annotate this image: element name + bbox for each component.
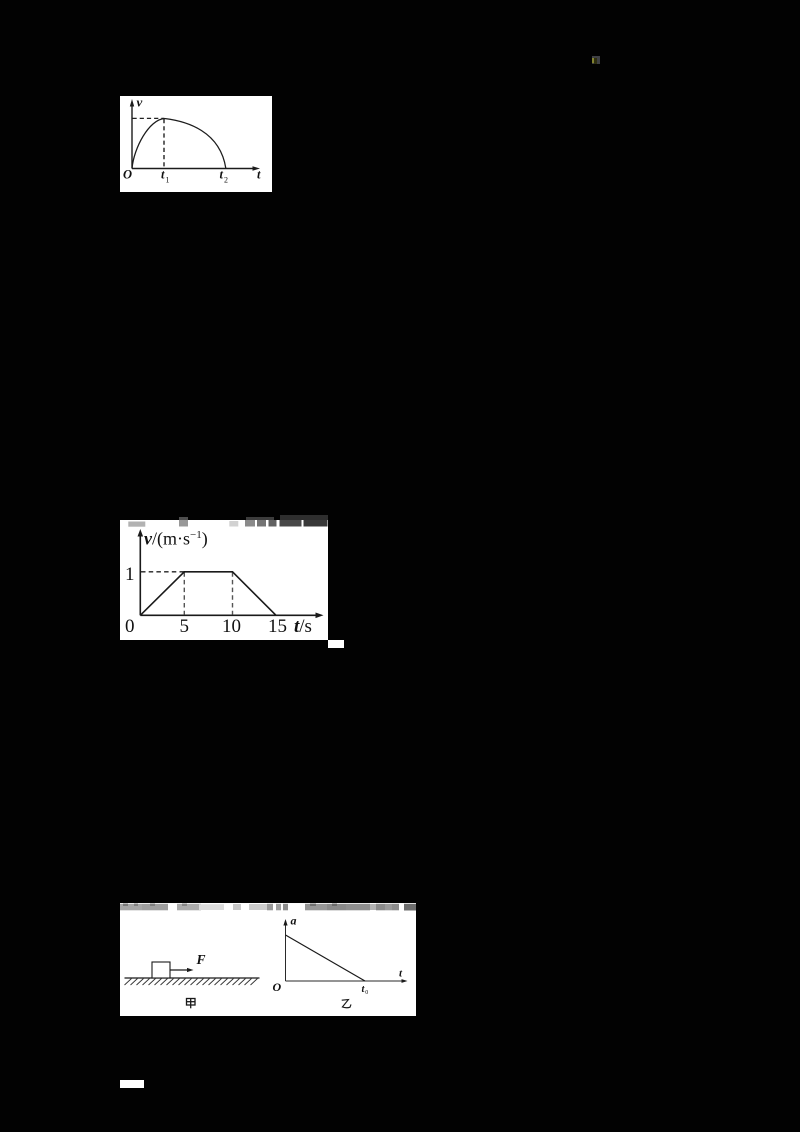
svg-text:t: t xyxy=(257,168,261,182)
svg-text:0: 0 xyxy=(365,990,368,996)
a-axis xyxy=(285,923,287,981)
svg-text:15: 15 xyxy=(268,616,287,637)
ground line xyxy=(125,977,260,979)
dashed vertical at t1 xyxy=(163,119,165,168)
small white tab at bottom-right of panel 2 xyxy=(328,640,344,648)
dashed horizontal to peak xyxy=(133,117,165,119)
svg-text:5: 5 xyxy=(180,616,190,637)
small white tab bottom left xyxy=(120,1080,144,1088)
ground hatching xyxy=(125,979,258,986)
x-axis xyxy=(140,614,318,616)
decreasing a line xyxy=(286,935,366,981)
figure panel 3: block with force F and a-t graph xyxy=(120,903,416,1016)
svg-text:2: 2 xyxy=(224,176,228,185)
svg-text:10: 10 xyxy=(222,616,241,637)
label jia (CJK drawn) xyxy=(187,999,196,1009)
svg-text:v/(m·s−1): v/(m·s−1) xyxy=(144,529,208,550)
x-axis t xyxy=(132,168,254,170)
svg-text:O: O xyxy=(123,168,132,182)
label yi (CJK drawn) xyxy=(342,1000,351,1008)
faint text remnants above panel 2 xyxy=(179,517,188,520)
figure panel 1: v-t dome curve graph xyxy=(120,96,272,192)
svg-text:O: O xyxy=(273,980,282,994)
smudge row remnants xyxy=(128,520,327,527)
force arrow F xyxy=(170,969,189,971)
svg-text:0: 0 xyxy=(125,616,135,637)
olive mark inside grey square xyxy=(592,58,594,63)
svg-text:a: a xyxy=(291,914,297,928)
svg-text:v: v xyxy=(137,96,143,110)
svg-text:t/s: t/s xyxy=(294,616,312,637)
t-axis xyxy=(286,980,405,982)
block on ground xyxy=(152,962,170,978)
svg-text:t: t xyxy=(161,168,165,182)
svg-text:t: t xyxy=(399,968,403,980)
trapezoid velocity line xyxy=(140,572,276,616)
svg-text:F: F xyxy=(196,952,206,967)
svg-text:t: t xyxy=(220,168,224,182)
y-axis xyxy=(139,533,141,615)
figure panel 2: trapezoid v-t graph xyxy=(120,520,328,640)
small grey marker square top right xyxy=(592,56,600,64)
velocity curve xyxy=(132,119,226,169)
dashed horizontal at v=1 xyxy=(141,571,184,573)
smudge band base xyxy=(120,904,416,911)
svg-text:1: 1 xyxy=(166,176,170,185)
svg-text:1: 1 xyxy=(125,564,135,585)
dashed vertical at t=10 xyxy=(232,572,234,615)
y-axis v xyxy=(131,103,133,169)
dashed vertical at t=5 xyxy=(183,572,185,615)
